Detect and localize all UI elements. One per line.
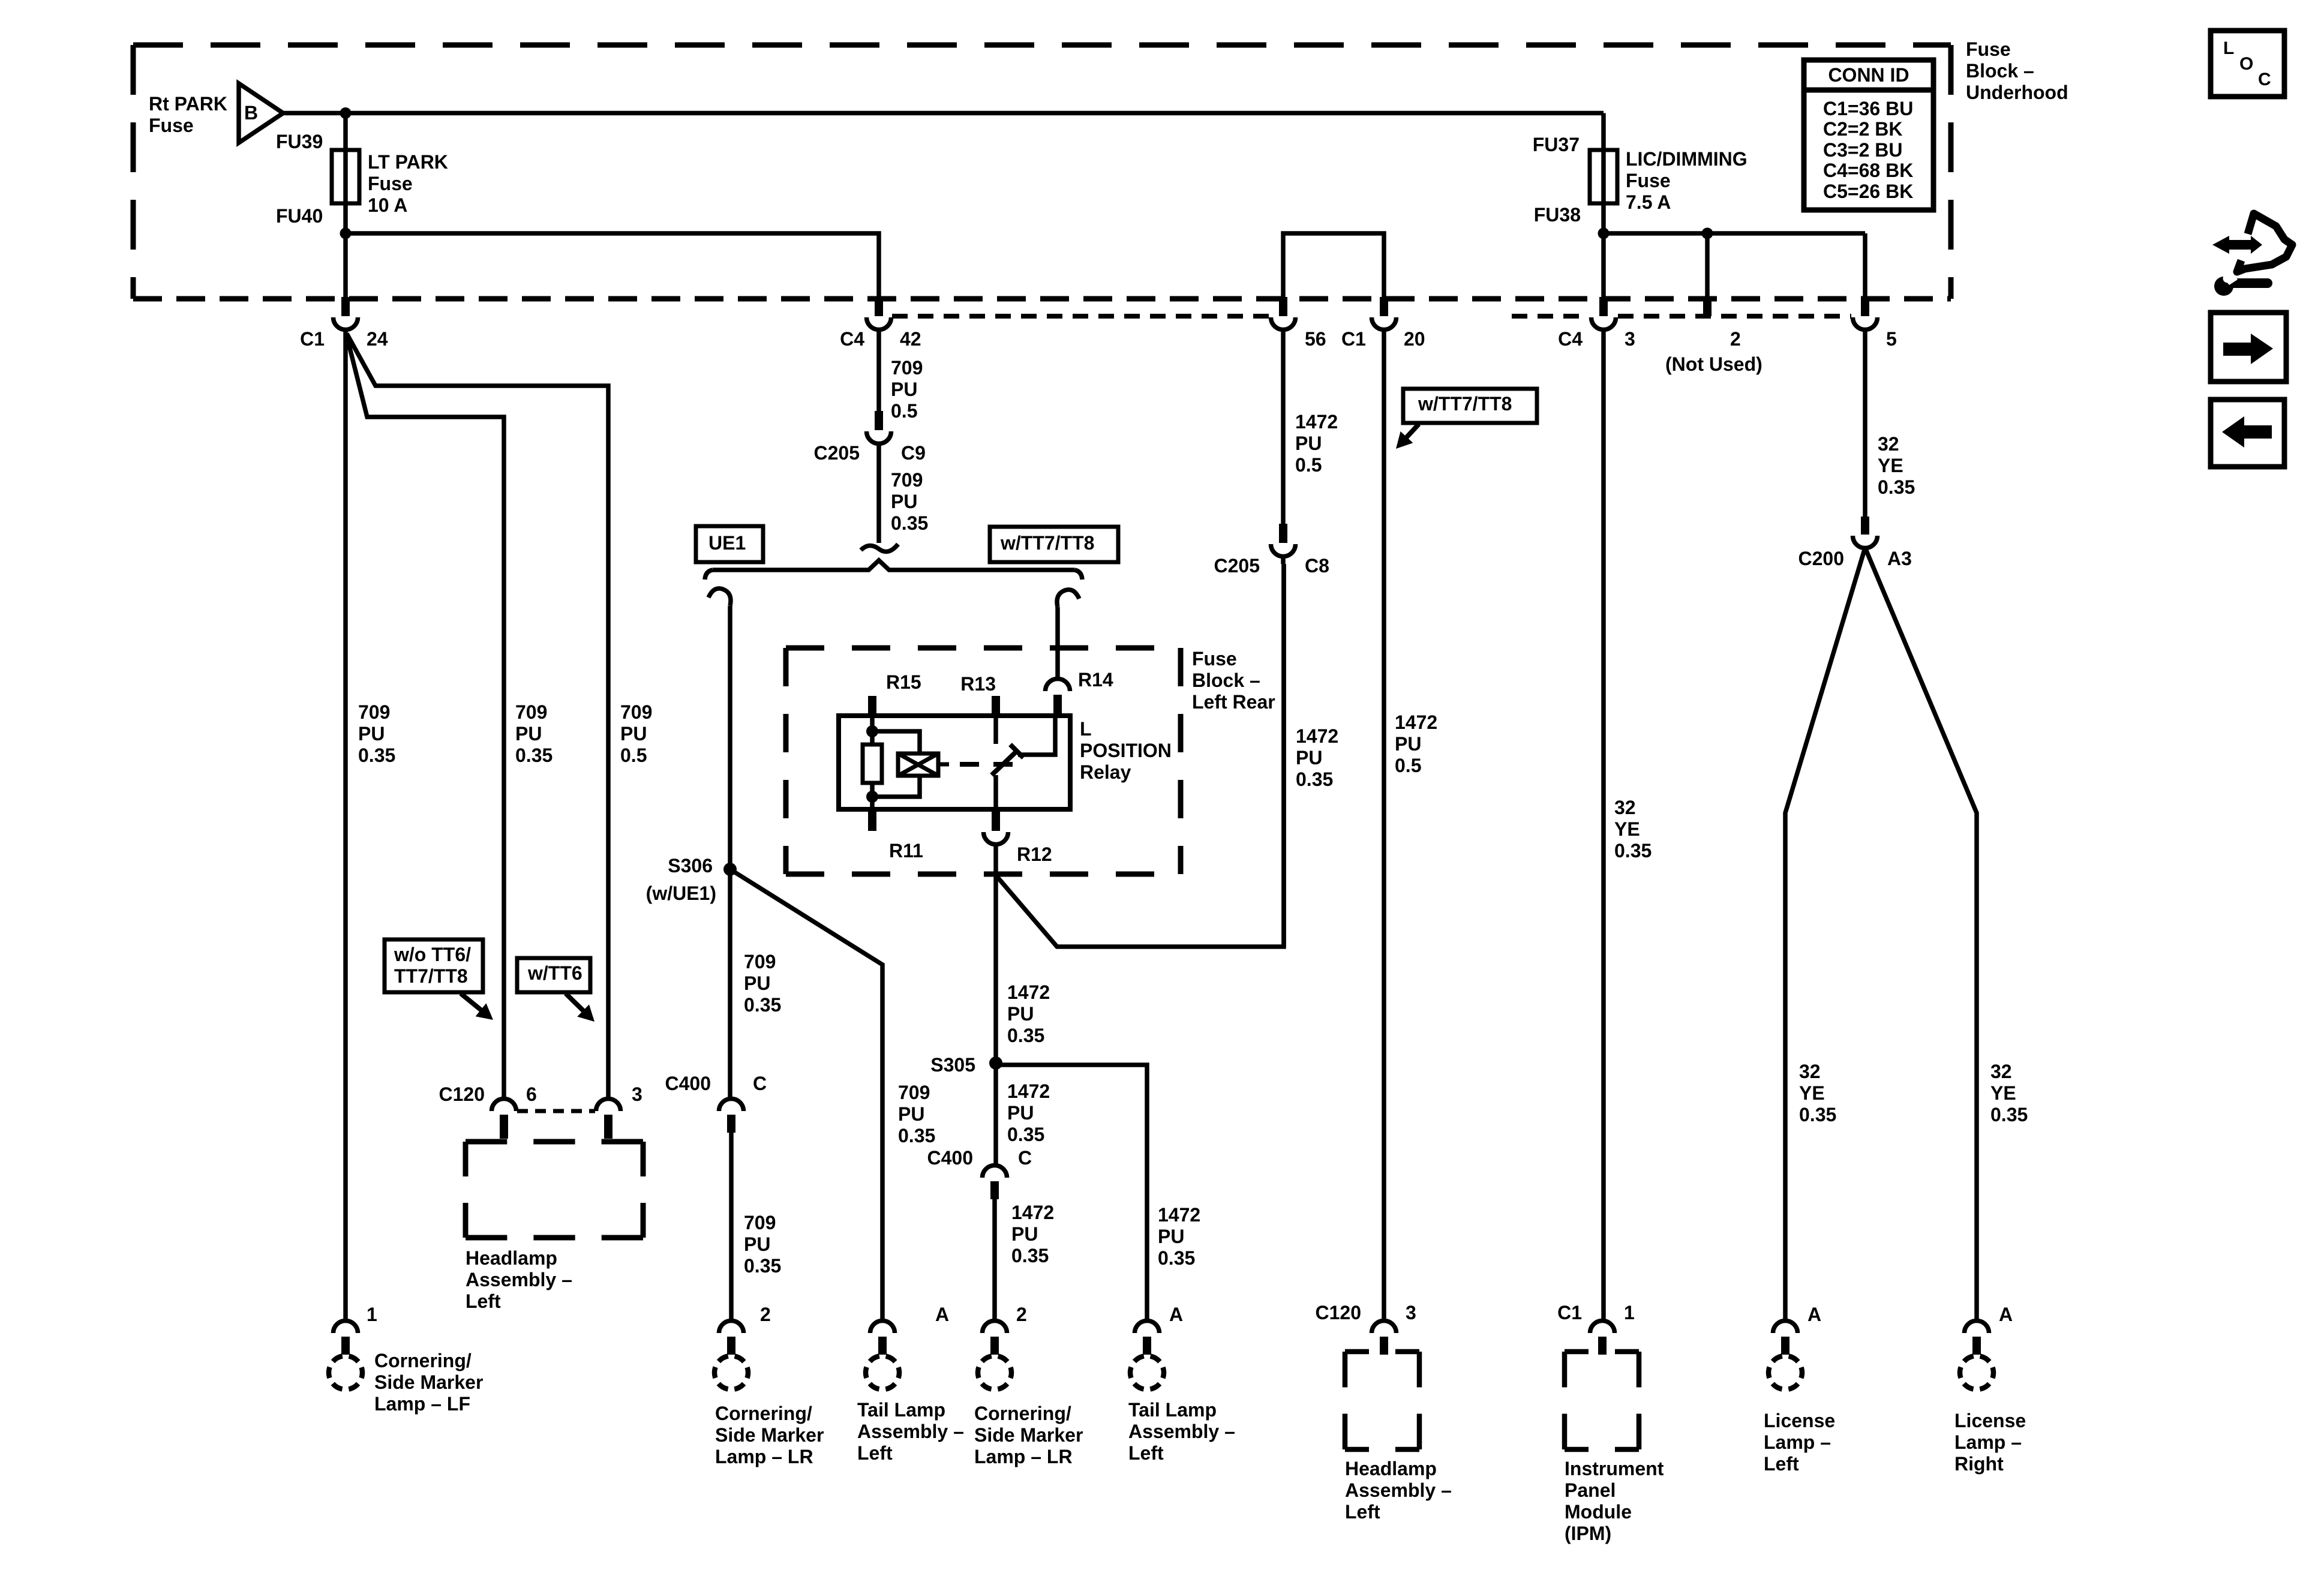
- svg-text:Cornering/: Cornering/: [715, 1403, 812, 1424]
- label R14: [1078, 669, 1113, 691]
- connector A (license left): [1768, 1321, 1802, 1390]
- svg-text:0.35: 0.35: [898, 1125, 935, 1146]
- svg-text:CONN ID: CONN ID: [1828, 64, 1909, 86]
- LOC icon box: [2211, 31, 2284, 97]
- actuator dashed link: [960, 762, 1014, 767]
- svg-text:42: 42: [900, 328, 921, 350]
- svg-text:S306: S306: [668, 855, 713, 876]
- svg-text:R14: R14: [1078, 669, 1113, 691]
- wire FU40 to C1-24: [343, 203, 348, 297]
- svg-text:1472: 1472: [1395, 712, 1437, 733]
- svg-text:C4=68 BK: C4=68 BK: [1823, 160, 1913, 181]
- svg-text:0.5: 0.5: [620, 745, 647, 766]
- svg-text:w/TT7/TT8: w/TT7/TT8: [1000, 532, 1094, 554]
- label C205: [814, 442, 860, 464]
- svg-text:PU: PU: [620, 723, 647, 745]
- label C4 (second): [1558, 328, 1583, 350]
- wire S306 to tail lamp left: [730, 869, 882, 1320]
- label C9: [901, 442, 926, 464]
- connector face dotted line: [892, 314, 1851, 319]
- wire UE1 branch to S306: [728, 606, 732, 869]
- label R13: [960, 673, 996, 695]
- svg-text:1: 1: [367, 1304, 377, 1325]
- svg-text:Left: Left: [466, 1290, 501, 1312]
- svg-text:1: 1: [1624, 1302, 1635, 1323]
- svg-text:709: 709: [515, 701, 547, 723]
- label Fuse Block - Left Rear: [1192, 648, 1275, 713]
- junction dot at FU39 top: [340, 107, 352, 119]
- svg-text:YE: YE: [1799, 1082, 1825, 1104]
- connector 1 (LF lamp): [329, 1321, 362, 1389]
- svg-text:Fuse: Fuse: [368, 173, 413, 194]
- bridge wire pins 56-20: [1283, 233, 1384, 297]
- svg-text:Left Rear: Left Rear: [1192, 691, 1275, 713]
- svg-text:Fuse: Fuse: [1966, 38, 2011, 60]
- wire 5 to C200: [1863, 329, 1867, 517]
- svg-text:Headlamp: Headlamp: [466, 1247, 557, 1269]
- svg-text:C9: C9: [901, 442, 926, 464]
- svg-text:0.35: 0.35: [891, 512, 928, 534]
- svg-text:0.35: 0.35: [1296, 769, 1333, 790]
- svg-text:Underhood: Underhood: [1966, 82, 2068, 103]
- instrument panel module box (dashed): [1565, 1352, 1639, 1449]
- wire TT7 branch to R14: [1055, 607, 1060, 679]
- svg-text:0.35: 0.35: [358, 745, 395, 766]
- option brace: [705, 560, 1082, 580]
- connector C4 pin 3: [1592, 297, 1616, 329]
- svg-text:32: 32: [1614, 797, 1636, 818]
- wire C400 left to cornering LR: [729, 1133, 734, 1320]
- svg-text:0.35: 0.35: [1799, 1104, 1836, 1125]
- svg-text:PU: PU: [1295, 433, 1322, 454]
- svg-text:C120: C120: [439, 1083, 485, 1105]
- label 1472 PU 0.5 (20 wire): [1395, 712, 1437, 776]
- label Rt PARK Fuse: [149, 93, 227, 136]
- label 709 PU 0.5 (C120-3 wire): [620, 701, 652, 766]
- power feed triangle B (Rt PARK Fuse): [239, 83, 283, 143]
- label C400 (left): [665, 1073, 711, 1094]
- branch hook w/TT7/TT8: [1057, 590, 1079, 607]
- svg-text:C400: C400: [927, 1147, 974, 1169]
- svg-text:PU: PU: [515, 723, 542, 745]
- svg-text:A: A: [1807, 1304, 1821, 1325]
- svg-text:R15: R15: [886, 671, 921, 693]
- fan wire to C120 pin 6 wire: [346, 334, 504, 1097]
- svg-text:0.5: 0.5: [891, 400, 917, 422]
- svg-text:0.5: 0.5: [1295, 454, 1322, 476]
- branch hook UE1: [708, 589, 731, 606]
- option box w/o TT6/TT7/TT8: [385, 939, 493, 1020]
- connector C1 pin 20: [1372, 297, 1397, 329]
- svg-text:1472: 1472: [1007, 1080, 1050, 1102]
- connector C1 pin 56: [1271, 297, 1296, 329]
- CONN ID table: [1804, 60, 1933, 210]
- label C120: [439, 1083, 485, 1105]
- svg-text:709: 709: [620, 701, 652, 723]
- connector A (license right): [1960, 1321, 1993, 1390]
- connector C205/C9: [867, 411, 891, 444]
- svg-text:Side Marker: Side Marker: [374, 1371, 483, 1393]
- svg-text:0.35: 0.35: [1878, 476, 1915, 498]
- svg-text:Left: Left: [1345, 1501, 1380, 1523]
- label 709 PU 0.35 (C9 wire): [891, 469, 928, 534]
- svg-text:YE: YE: [1878, 455, 1903, 476]
- svg-text:FU40: FU40: [276, 205, 323, 227]
- label S306: [668, 855, 713, 876]
- svg-text:Side Marker: Side Marker: [715, 1424, 824, 1446]
- fuse block - left rear box (dashed): [786, 648, 1181, 874]
- connector C1 pin 1 (IPM): [1590, 1321, 1615, 1355]
- svg-text:O: O: [2239, 54, 2253, 74]
- svg-text:C5=26 BK: C5=26 BK: [1823, 181, 1913, 202]
- headlamp assembly left box 2 (dashed): [1345, 1352, 1419, 1449]
- svg-text:C1: C1: [1557, 1302, 1582, 1323]
- label Fuse Block - Underhood: [1966, 38, 2068, 103]
- option box w/TT6: [517, 958, 594, 1022]
- label A3: [1887, 548, 1912, 569]
- svg-text:0.35: 0.35: [1990, 1104, 2028, 1125]
- svg-text:R12: R12: [1017, 843, 1052, 865]
- junction dot FU38: [1598, 228, 1610, 239]
- left arrow icon box: [2211, 400, 2284, 467]
- label 42: [900, 328, 921, 350]
- lamp Cornering/Side Marker Lamp - LF label: [374, 1350, 483, 1415]
- svg-text:20: 20: [1404, 328, 1425, 350]
- option label box UE1: [696, 526, 763, 562]
- svg-text:PU: PU: [744, 972, 770, 994]
- wire C200 to license right: [1865, 548, 1977, 1320]
- svg-text:C2=2 BK: C2=2 BK: [1823, 118, 1903, 140]
- svg-text:PU: PU: [891, 379, 917, 400]
- fuse FU37/FU38 LIC/DIMMING 7.5A: [1590, 150, 1617, 203]
- connector C205/C8: [1271, 524, 1296, 556]
- svg-text:Assembly –: Assembly –: [1345, 1479, 1452, 1501]
- svg-text:709: 709: [358, 701, 390, 723]
- wire FU38 down: [1601, 203, 1606, 297]
- svg-text:PU: PU: [898, 1103, 924, 1125]
- svg-text:FU38: FU38: [1534, 204, 1581, 226]
- label C1 (second): [1341, 328, 1366, 350]
- svg-text:S305: S305: [930, 1054, 975, 1076]
- fuse FU39/FU40 LT PARK 10A: [332, 150, 359, 203]
- svg-text:YE: YE: [1990, 1082, 2016, 1104]
- svg-text:3: 3: [632, 1083, 642, 1105]
- fan wire to C120 pin 3 wire: [347, 334, 608, 1097]
- label FU38: [1534, 204, 1581, 226]
- svg-text:LIC/DIMMING: LIC/DIMMING: [1626, 148, 1747, 170]
- label C205 (C8): [1214, 555, 1260, 577]
- coil actuator stub: [938, 763, 949, 767]
- svg-text:FU39: FU39: [276, 131, 323, 152]
- label 1472 PU 0.35 (below C400 right): [1011, 1202, 1054, 1266]
- label (w/UE1): [646, 882, 716, 904]
- svg-text:Headlamp: Headlamp: [1345, 1458, 1437, 1479]
- svg-text:C4: C4: [1558, 328, 1583, 350]
- svg-text:Rt PARK: Rt PARK: [149, 93, 227, 115]
- wire S306 to C400 left: [728, 869, 732, 1098]
- svg-text:Instrument: Instrument: [1565, 1458, 1664, 1479]
- license lamp left label: [1764, 1410, 1835, 1475]
- svg-text:License: License: [1764, 1410, 1835, 1431]
- svg-text:C4: C4: [840, 328, 864, 350]
- svg-text:PU: PU: [1011, 1223, 1038, 1245]
- label 24: [367, 328, 388, 350]
- connector 2 (cornering LR 1): [714, 1321, 748, 1390]
- svg-text:709: 709: [891, 469, 923, 491]
- label 2 (LR2): [1016, 1304, 1027, 1325]
- svg-text:R13: R13: [960, 673, 996, 695]
- label Headlamp Assembly - Left 2: [1345, 1458, 1452, 1523]
- connector C120 pins 6 and 3: [492, 1099, 621, 1139]
- svg-text:FU37: FU37: [1533, 134, 1580, 155]
- label C120 (headlamp): [1316, 1302, 1362, 1323]
- svg-text:Lamp –: Lamp –: [1764, 1431, 1831, 1453]
- svg-text:C1: C1: [300, 328, 325, 350]
- svg-text:C: C: [2258, 70, 2271, 89]
- pin 2 not used: [1703, 297, 1712, 316]
- splice S306: [723, 863, 737, 876]
- wire R12 down: [993, 844, 998, 1063]
- svg-text:Panel: Panel: [1565, 1479, 1616, 1501]
- svg-text:C8: C8: [1305, 555, 1329, 577]
- label 5: [1886, 328, 1897, 350]
- label C1 (IPM): [1557, 1302, 1582, 1323]
- label (Not Used): [1665, 353, 1762, 375]
- svg-text:1472: 1472: [1158, 1204, 1200, 1226]
- svg-text:Fuse: Fuse: [1192, 648, 1237, 670]
- svg-text:C200: C200: [1798, 548, 1845, 569]
- label R11: [889, 840, 923, 861]
- svg-text:32: 32: [1990, 1061, 2012, 1082]
- svg-text:(IPM): (IPM): [1565, 1523, 1611, 1544]
- svg-text:PU: PU: [744, 1233, 770, 1255]
- relay connector R14: [1046, 679, 1070, 715]
- label A (tail2): [1169, 1304, 1183, 1325]
- label R15: [886, 671, 921, 693]
- relay resistor branch: [863, 716, 882, 809]
- svg-text:C: C: [1018, 1147, 1032, 1169]
- svg-text:R11: R11: [889, 840, 923, 861]
- wire S305 to tail lamp right: [996, 1065, 1147, 1320]
- label C8: [1305, 555, 1329, 577]
- splice S305: [989, 1056, 1002, 1070]
- label Headlamp Assembly - Left: [466, 1247, 572, 1312]
- wire 20 to C120-3: [1382, 329, 1386, 1320]
- label A (licL): [1807, 1304, 1821, 1325]
- label A (licR): [1999, 1304, 2013, 1325]
- relay terminal R12: [984, 775, 1008, 844]
- svg-text:A3: A3: [1887, 548, 1912, 569]
- svg-text:Assembly –: Assembly –: [1128, 1421, 1235, 1442]
- connector A (tail lamp 1): [866, 1321, 899, 1390]
- svg-text:Tail Lamp: Tail Lamp: [1128, 1399, 1217, 1421]
- svg-text:0.5: 0.5: [1395, 755, 1421, 776]
- svg-text:24: 24: [367, 328, 388, 350]
- svg-text:C400: C400: [665, 1073, 711, 1094]
- connector 2 (cornering LR 2): [978, 1321, 1011, 1390]
- svg-text:C205: C205: [814, 442, 860, 464]
- svg-text:Fuse: Fuse: [149, 115, 194, 136]
- svg-text:0.35: 0.35: [1007, 1124, 1044, 1145]
- label 2 (LR1): [760, 1304, 771, 1325]
- svg-text:6: 6: [526, 1083, 537, 1105]
- svg-text:Lamp – LR: Lamp – LR: [715, 1446, 813, 1467]
- label R12: [1017, 843, 1052, 865]
- label 1472 PU 0.35 (tail lamp right): [1158, 1204, 1200, 1269]
- connector C400 C (left): [719, 1099, 744, 1133]
- svg-text:Right: Right: [1954, 1453, 2004, 1475]
- label S305: [930, 1054, 975, 1076]
- label 1 (IPM): [1624, 1302, 1635, 1323]
- label FU39: [276, 131, 323, 152]
- svg-text:A: A: [1999, 1304, 2013, 1325]
- svg-text:Lamp –: Lamp –: [1954, 1431, 2022, 1453]
- svg-text:32: 32: [1799, 1061, 1821, 1082]
- svg-text:709: 709: [898, 1082, 930, 1103]
- svg-text:PU: PU: [1007, 1102, 1034, 1124]
- svg-text:Tail Lamp: Tail Lamp: [857, 1399, 945, 1421]
- tail lamp assembly left 2 label: [1128, 1399, 1235, 1464]
- label 32 YE 0.35 (5 wire): [1878, 433, 1915, 498]
- svg-text:2: 2: [1730, 328, 1741, 350]
- svg-text:1472: 1472: [1295, 411, 1338, 433]
- svg-text:(w/UE1): (w/UE1): [646, 882, 716, 904]
- svg-text:Left: Left: [857, 1442, 893, 1464]
- svg-text:License: License: [1954, 1410, 2026, 1431]
- label 3: [1625, 328, 1635, 350]
- svg-text:10 A: 10 A: [368, 194, 407, 216]
- svg-text:2: 2: [760, 1304, 771, 1325]
- label 709 PU 0.35 (below C400 left): [744, 1212, 781, 1277]
- svg-text:Block –: Block –: [1966, 60, 2034, 82]
- lamp Cornering/Side Marker Lamp - LR label: [715, 1403, 824, 1467]
- svg-text:1472: 1472: [1296, 725, 1338, 747]
- label C1: [300, 328, 325, 350]
- svg-text:Assembly –: Assembly –: [857, 1421, 964, 1442]
- svg-text:Module: Module: [1565, 1501, 1632, 1523]
- connector C4 pin 42: [867, 297, 891, 329]
- svg-text:Relay: Relay: [1080, 761, 1131, 783]
- svg-text:0.35: 0.35: [515, 745, 553, 766]
- label C (left): [753, 1073, 767, 1094]
- relay terminal R11: [868, 809, 876, 831]
- svg-text:C1=36 BU: C1=36 BU: [1823, 98, 1913, 119]
- svg-text:PU: PU: [1007, 1003, 1034, 1025]
- label 1472 PU 0.35 (R12 wire): [1007, 981, 1050, 1046]
- label 3 (headlamp): [1406, 1302, 1416, 1323]
- svg-text:709: 709: [744, 951, 776, 972]
- svg-text:0.35: 0.35: [1614, 840, 1652, 861]
- svg-text:PU: PU: [1296, 747, 1322, 769]
- label 3 (C120): [632, 1083, 642, 1105]
- label L POSITION Relay: [1080, 718, 1172, 783]
- wire R12 to C8 line: [996, 564, 1284, 947]
- svg-text:C120: C120: [1316, 1302, 1362, 1323]
- connector A (tail lamp 2): [1130, 1321, 1164, 1390]
- label C4: [840, 328, 864, 350]
- svg-text:Cornering/: Cornering/: [974, 1403, 1071, 1424]
- connector C120 pin 3 (headlamp left): [1372, 1321, 1397, 1355]
- svg-text:1472: 1472: [1011, 1202, 1054, 1223]
- connector C200 A3: [1853, 517, 1878, 548]
- svg-text:709: 709: [744, 1212, 776, 1233]
- svg-text:C205: C205: [1214, 555, 1260, 577]
- label 20: [1404, 328, 1425, 350]
- svg-text:A: A: [935, 1304, 949, 1325]
- svg-text:C3=2 BU: C3=2 BU: [1823, 139, 1903, 161]
- wire break squiggle: [861, 544, 898, 552]
- license lamp right label: [1954, 1410, 2026, 1475]
- svg-text:PU: PU: [1395, 733, 1421, 755]
- svg-text:0.35: 0.35: [744, 1255, 781, 1277]
- label C (right): [1018, 1147, 1032, 1169]
- svg-text:2: 2: [1016, 1304, 1027, 1325]
- connector C4 pin 5: [1853, 297, 1878, 329]
- label 1472 PU 0.5 (56 wire): [1295, 411, 1338, 476]
- svg-text:0.35: 0.35: [1011, 1245, 1049, 1266]
- label 6: [526, 1083, 537, 1105]
- label 32 YE 0.35 (license right): [1990, 1061, 2028, 1125]
- svg-text:1472: 1472: [1007, 981, 1050, 1003]
- wire 56 to C205-C8: [1281, 329, 1286, 524]
- label FU40: [276, 205, 323, 227]
- label 1472 PU 0.35 (C8 wire): [1296, 725, 1338, 790]
- label Instrument Panel Module (IPM): [1565, 1458, 1664, 1544]
- label 2: [1730, 328, 1741, 350]
- label 709 PU 0.35 (LF wire): [358, 701, 395, 766]
- svg-text:UE1: UE1: [708, 532, 746, 554]
- label 1472 PU 0.35 (below S305): [1007, 1080, 1050, 1145]
- svg-text:YE: YE: [1614, 818, 1640, 840]
- option label box w/TT7/TT8 (relay branch): [990, 527, 1118, 562]
- svg-text:Cornering/: Cornering/: [374, 1350, 472, 1371]
- wire C8 down: [1283, 556, 1284, 947]
- svg-text:PU: PU: [891, 491, 917, 512]
- label 709 PU 0.35 (tail lamp left): [898, 1082, 935, 1146]
- connector C400 C (right): [983, 1166, 1007, 1200]
- svg-text:56: 56: [1305, 328, 1326, 350]
- svg-text:Side Marker: Side Marker: [974, 1424, 1083, 1446]
- option box w/TT7/TT8 (headlamp): [1396, 389, 1537, 449]
- svg-text:Lamp – LR: Lamp – LR: [974, 1446, 1073, 1467]
- L POSITION relay box: [839, 716, 1070, 809]
- svg-text:Left: Left: [1128, 1442, 1164, 1464]
- svg-text:3: 3: [1406, 1302, 1416, 1323]
- svg-text:A: A: [1169, 1304, 1183, 1325]
- lamp Cornering/Side Marker Lamp - LR 2 label: [974, 1403, 1083, 1467]
- label 709 PU 0.5 (C4-42 wire): [891, 357, 923, 422]
- svg-text:TT7/TT8: TT7/TT8: [394, 965, 468, 987]
- relay coil (box with X): [898, 754, 938, 776]
- junction dot FU40: [340, 228, 352, 239]
- svg-text:C1: C1: [1341, 328, 1366, 350]
- label 1 (LF): [367, 1304, 377, 1325]
- wire C400 to cornering LR right: [992, 1199, 997, 1320]
- label A (tail1): [935, 1304, 949, 1325]
- relay switch: [992, 716, 1055, 775]
- svg-text:0.35: 0.35: [1007, 1025, 1044, 1046]
- svg-text:Assembly –: Assembly –: [466, 1269, 572, 1290]
- wire S305 to C400: [993, 1063, 998, 1165]
- relay terminal R15: [868, 696, 876, 716]
- svg-text:Left: Left: [1764, 1453, 1799, 1475]
- wire C9 to option split: [876, 443, 881, 543]
- headlamp assembly left box (dashed): [466, 1142, 643, 1238]
- wire C4-42 to C205-C9: [876, 329, 881, 411]
- svg-text:32: 32: [1878, 433, 1899, 455]
- relay terminal R13: [992, 696, 1000, 716]
- label LIC/DIMMING Fuse 7.5 A: [1626, 148, 1747, 213]
